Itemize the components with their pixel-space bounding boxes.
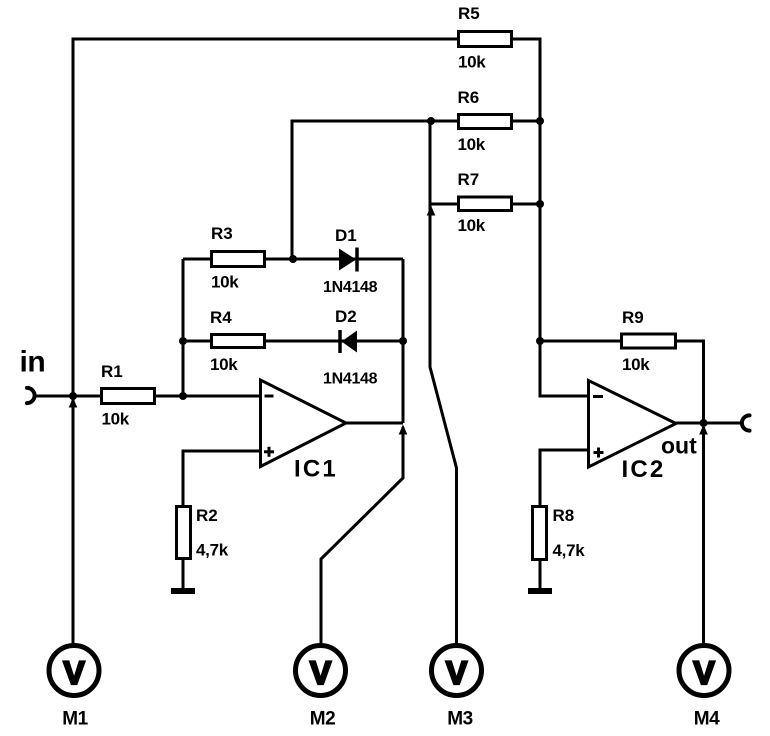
svg-text:R6: R6 [458, 88, 480, 107]
svg-text:in: in [20, 346, 46, 379]
svg-text:10k: 10k [210, 355, 238, 374]
svg-text:R7: R7 [458, 170, 480, 189]
svg-text:R2: R2 [196, 506, 218, 525]
svg-text:V: V [63, 655, 85, 691]
svg-text:M3: M3 [447, 709, 472, 730]
svg-text:D1: D1 [335, 226, 357, 245]
svg-text:1N4148: 1N4148 [323, 371, 378, 388]
svg-text:1N4148: 1N4148 [323, 279, 378, 296]
svg-text:V: V [310, 655, 332, 691]
svg-text:M2: M2 [310, 709, 335, 730]
svg-text:10k: 10k [622, 355, 650, 374]
svg-text:10k: 10k [458, 53, 486, 72]
svg-text:4,7k: 4,7k [553, 541, 586, 560]
svg-text:R4: R4 [210, 308, 232, 327]
svg-text:R8: R8 [553, 506, 575, 525]
svg-text:R5: R5 [458, 4, 480, 23]
svg-text:R3: R3 [211, 224, 233, 243]
svg-text:10k: 10k [458, 216, 486, 235]
svg-text:IC2: IC2 [622, 456, 666, 483]
svg-text:V: V [446, 655, 468, 691]
svg-text:10k: 10k [458, 135, 486, 154]
svg-text:M4: M4 [694, 709, 720, 730]
svg-text:4,7k: 4,7k [196, 541, 229, 560]
svg-text:D2: D2 [335, 307, 357, 326]
svg-text:10k: 10k [211, 273, 239, 292]
svg-text:IC1: IC1 [294, 456, 338, 483]
svg-text:out: out [661, 433, 697, 459]
svg-text:M1: M1 [62, 709, 88, 730]
svg-text:10k: 10k [102, 410, 130, 429]
svg-text:V: V [693, 655, 715, 691]
svg-text:R9: R9 [622, 308, 644, 327]
svg-text:R1: R1 [101, 362, 123, 381]
